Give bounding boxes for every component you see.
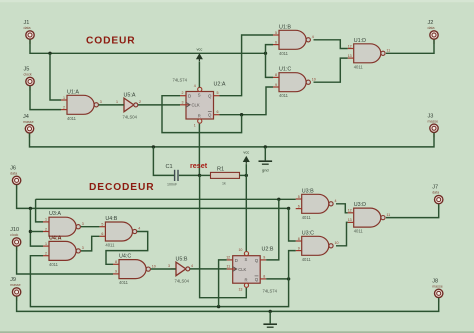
wire gnd drop	[269, 311, 271, 323]
svg-text:3: 3	[168, 264, 170, 268]
wire U4:A out to U4:B pin6	[81, 236, 100, 251]
svg-text:100nF: 100nF	[167, 182, 178, 186]
svg-text:9: 9	[298, 246, 300, 250]
svg-text:74LS74: 74LS74	[173, 78, 188, 83]
svg-text:1: 1	[194, 124, 196, 128]
svg-text:U4:A: U4:A	[49, 235, 62, 241]
svg-text:11: 11	[387, 213, 391, 217]
svg-text:74LS04: 74LS04	[123, 115, 138, 120]
svg-text:13: 13	[238, 288, 242, 292]
wire U5:A output to U2:A CLK	[138, 104, 180, 106]
connector J2 (data out)	[428, 20, 439, 44]
svg-text:12: 12	[348, 44, 352, 48]
D flip-flop U2:A (74LS74)	[173, 78, 226, 128]
wire U3:D out to J7	[386, 204, 439, 218]
NAND gate U4:C	[113, 254, 156, 286]
svg-text:U4:C: U4:C	[119, 254, 131, 260]
wire U2:B Q-bar out	[266, 278, 288, 280]
svg-text:reset: reset	[190, 161, 208, 170]
power vcc (U2:A set)	[196, 47, 202, 61]
svg-text:U3:D: U3:D	[354, 202, 366, 208]
connector J7 (data out)	[432, 185, 443, 209]
ground symbol (codeur)	[259, 160, 273, 173]
svg-text:R: R	[244, 278, 247, 283]
svg-text:U4:B: U4:B	[105, 216, 117, 222]
inverter U5:B	[168, 257, 193, 284]
svg-text:data: data	[432, 191, 439, 195]
wire J5 to U1:A pin2	[30, 86, 61, 110]
svg-text:U3:B: U3:B	[302, 188, 314, 194]
wire U2:A Q to U1:B pin5	[220, 35, 274, 96]
svg-text:4011: 4011	[302, 257, 312, 262]
svg-text:4011: 4011	[67, 116, 77, 121]
junction feedback rail / U2:B D	[217, 305, 220, 308]
svg-text:D: D	[235, 258, 238, 263]
wire reset node down to U2:B R pin	[200, 175, 247, 297]
junction masse rail / C1 branch	[152, 145, 155, 148]
wire branch to U3:A pin2	[30, 231, 43, 233]
wire feedback rail up to U2:B D	[219, 260, 227, 307]
svg-text:74LS74: 74LS74	[263, 289, 278, 294]
svg-text:3: 3	[82, 246, 84, 250]
svg-text:D: D	[188, 94, 191, 99]
power vcc (reset pull-up)	[243, 149, 249, 163]
wire masse rail J4 to J3	[30, 133, 435, 147]
svg-text:CLK: CLK	[238, 267, 246, 272]
svg-text:6: 6	[101, 232, 103, 236]
svg-text:8: 8	[298, 237, 300, 241]
svg-text:4011: 4011	[354, 64, 364, 69]
svg-text:masse: masse	[10, 283, 21, 287]
svg-text:4: 4	[312, 35, 314, 39]
svg-text:U2:B: U2:B	[262, 246, 274, 252]
svg-text:U1:A: U1:A	[67, 89, 79, 95]
wire U5:B out to U2:B CLK	[190, 268, 227, 270]
wire masse rail to C1	[153, 147, 174, 176]
svg-text:11: 11	[387, 49, 391, 53]
NAND gate U4:A	[43, 235, 84, 267]
wire Q-bar feedback to U2:A D	[162, 96, 242, 133]
svg-text:U1:B: U1:B	[279, 24, 291, 30]
svg-text:10: 10	[312, 77, 316, 81]
svg-text:9: 9	[263, 255, 265, 259]
svg-text:4: 4	[335, 199, 337, 203]
svg-text:9: 9	[275, 83, 277, 87]
NAND gate U3:B	[296, 188, 337, 220]
wire C1 to reset node	[179, 174, 200, 176]
wire J6 to data rail	[17, 185, 289, 209]
svg-text:4011: 4011	[119, 280, 129, 285]
svg-text:R1: R1	[217, 166, 224, 172]
svg-text:clock: clock	[10, 233, 18, 237]
svg-text:74LS04: 74LS04	[175, 279, 190, 284]
svg-text:masse: masse	[23, 120, 34, 124]
wire U4:B out to U4:C pin8	[106, 232, 148, 265]
svg-text:4: 4	[191, 264, 193, 268]
svg-text:4011: 4011	[354, 229, 364, 234]
svg-text:5: 5	[298, 195, 300, 199]
svg-text:gnd: gnd	[262, 168, 269, 173]
wire U4:C out to U5:B input	[151, 268, 176, 270]
inverter U5:A	[116, 93, 141, 120]
wire U1:B output to U1:D pin12	[314, 40, 348, 49]
svg-text:4011: 4011	[279, 93, 289, 98]
svg-text:4: 4	[194, 84, 196, 88]
NAND gate U4:B	[99, 216, 140, 248]
svg-text:R: R	[198, 113, 201, 118]
wire U1:A output to U5:A input	[99, 104, 125, 106]
wire U2:B Q up to rail	[266, 199, 279, 260]
wire data rail to U1:B pin6	[266, 45, 274, 54]
wire reset node to R1	[200, 174, 211, 176]
wire data rail down to U3:C pin8	[289, 208, 296, 241]
junction Q rail / U2:B Q	[277, 198, 280, 201]
NAND gate U1:C	[273, 67, 316, 99]
svg-text:CLK: CLK	[192, 103, 200, 108]
svg-text:U3:C: U3:C	[302, 230, 314, 236]
junction R1 / vcc / U2:B S	[245, 174, 248, 177]
svg-text:3: 3	[100, 100, 102, 104]
wire U1:D output to J2	[386, 40, 434, 54]
NAND gate U3:A	[43, 211, 84, 236]
svg-text:U2:A: U2:A	[214, 82, 226, 88]
wire vcc arrow to node	[245, 164, 247, 175]
capacitor C1	[166, 164, 179, 187]
svg-text:Q: Q	[208, 94, 212, 99]
svg-text:U1:D: U1:D	[354, 38, 366, 44]
svg-text:8: 8	[275, 73, 277, 77]
svg-text:3: 3	[182, 100, 184, 104]
wire U2:A R pin to reset node	[198, 124, 200, 176]
svg-text:5: 5	[275, 31, 277, 35]
svg-text:6: 6	[275, 40, 277, 44]
svg-text:4011: 4011	[49, 262, 59, 267]
svg-text:Q: Q	[255, 277, 259, 282]
wire gnd branch	[264, 147, 266, 160]
wire data rail branch to U1:A pin1	[50, 53, 61, 100]
svg-text:U5:B: U5:B	[176, 257, 188, 263]
svg-text:2: 2	[139, 100, 141, 104]
connector J8 (masse out)	[432, 278, 443, 302]
svg-text:data: data	[428, 26, 435, 30]
wire U2:A Q-bar output	[220, 87, 274, 115]
svg-text:U5:A: U5:A	[124, 93, 136, 99]
svg-text:vcc: vcc	[243, 149, 249, 154]
svg-text:13: 13	[348, 54, 352, 58]
wire J9 to masse rail	[17, 297, 439, 312]
svg-text:1: 1	[45, 218, 47, 222]
svg-text:DECODEUR: DECODEUR	[89, 182, 155, 193]
svg-text:Q: Q	[208, 113, 212, 118]
wire left column down	[30, 208, 43, 246]
svg-text:9: 9	[115, 270, 117, 274]
connector J1 (data in)	[24, 20, 35, 44]
svg-text:masse: masse	[428, 119, 439, 123]
junction left column / U3:A pin2	[29, 230, 32, 233]
wire U3:A out to U4:B pin5	[81, 226, 100, 228]
wire U3:B out to U3:D pin12	[336, 204, 348, 213]
svg-text:12: 12	[226, 255, 230, 259]
NAND gate U3:C	[296, 230, 339, 261]
NAND gate U1:D	[348, 38, 391, 70]
wire Q-bar up to U3:C pin9	[289, 251, 296, 279]
svg-text:4011: 4011	[279, 51, 289, 56]
svg-text:CODEUR: CODEUR	[86, 36, 136, 47]
connector J10 (clock in)	[10, 227, 21, 251]
wire node down to U2:B S pin	[245, 175, 247, 251]
svg-text:data: data	[10, 171, 17, 175]
svg-text:data: data	[24, 26, 31, 30]
svg-text:13: 13	[348, 218, 352, 222]
svg-text:U1:C: U1:C	[279, 67, 291, 73]
svg-text:2: 2	[182, 91, 184, 95]
junction data rail / U3:C pin8	[287, 207, 290, 210]
svg-text:Q: Q	[255, 258, 259, 263]
svg-text:12: 12	[348, 209, 352, 213]
NAND gate U1:B	[273, 24, 314, 56]
junction data rail / left column	[29, 207, 32, 210]
svg-text:6: 6	[217, 110, 219, 114]
junction reset node	[198, 174, 201, 177]
svg-text:clock: clock	[24, 73, 32, 77]
connector J5 (clock in)	[24, 67, 35, 91]
svg-text:10: 10	[152, 264, 156, 268]
resistor R1	[211, 166, 240, 185]
D flip-flop U2:B (74LS74)	[226, 246, 277, 293]
connector J4 (masse in)	[23, 114, 34, 138]
svg-text:4011: 4011	[302, 215, 312, 220]
wire U3:C out to U3:D pin13	[336, 222, 348, 245]
svg-text:C1: C1	[166, 164, 173, 170]
junction masse rail / gnd branch	[264, 145, 267, 148]
svg-text:4: 4	[138, 227, 140, 231]
svg-text:8: 8	[115, 260, 117, 264]
connector J6 (data in)	[10, 165, 21, 189]
svg-text:S: S	[244, 257, 247, 262]
svg-text:1: 1	[116, 100, 118, 104]
svg-text:1: 1	[63, 96, 65, 100]
svg-text:2: 2	[45, 227, 47, 231]
svg-text:10: 10	[335, 241, 339, 245]
svg-text:4011: 4011	[105, 243, 115, 248]
svg-text:3: 3	[82, 222, 84, 226]
junction Q-bar net	[287, 277, 290, 280]
junction Q-bar / feedback	[240, 113, 243, 116]
wire data rail to U1:C pin8	[266, 53, 274, 77]
svg-text:6: 6	[298, 204, 300, 208]
junction data rail / U1:A branch	[48, 52, 51, 55]
svg-text:8: 8	[263, 274, 265, 278]
svg-text:11: 11	[226, 265, 230, 269]
wire Q rail	[36, 198, 296, 200]
svg-text:vcc: vcc	[196, 47, 202, 52]
svg-text:2: 2	[45, 252, 47, 256]
svg-text:1k: 1k	[222, 181, 226, 185]
svg-text:1: 1	[45, 242, 47, 246]
svg-text:5: 5	[217, 91, 219, 95]
connector J9 (masse in)	[10, 277, 21, 301]
svg-text:S: S	[198, 93, 201, 98]
wire J10 clock to U4:C pin9	[17, 247, 113, 275]
wire U1:C output to U1:D pin13	[314, 58, 348, 82]
svg-text:U3:A: U3:A	[49, 211, 61, 217]
wire J1 to data rail	[30, 40, 266, 54]
ground symbol (decodeur)	[263, 323, 277, 327]
svg-text:10: 10	[238, 248, 242, 252]
NAND gate U3:D	[348, 202, 391, 234]
junction masse rail / gnd	[269, 310, 272, 313]
wire Q rail to U3:A pin1	[36, 199, 43, 222]
NAND gate U1:A	[61, 89, 102, 121]
svg-text:2: 2	[63, 105, 65, 109]
wire vcc to U2:A S pin	[198, 61, 200, 87]
svg-text:5: 5	[101, 223, 103, 227]
wire Q-bar down to feedback rail	[30, 256, 288, 307]
svg-text:masse: masse	[432, 284, 443, 288]
wire R1 to vcc node	[240, 174, 247, 176]
connector J3 (masse out)	[428, 113, 439, 137]
junction data rail right end	[264, 52, 267, 55]
